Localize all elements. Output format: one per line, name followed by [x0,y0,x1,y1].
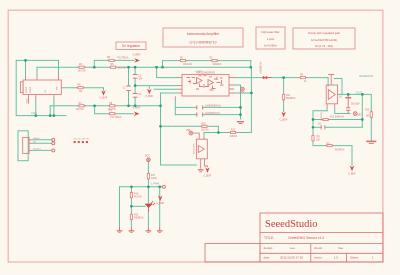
svg-text:fc=0.05Hz: fc=0.05Hz [264,44,277,48]
svg-text:2k7/1%: 2k7/1% [118,67,126,69]
svg-text:3V regulator: 3V regulator [122,44,141,48]
svg-text:check:: check: [314,246,323,250]
svg-text:1xWXM/7%: 1xWXM/7% [261,62,263,74]
svg-text:1k(W103): 1k(W103) [321,112,323,121]
svg-text:1k0/1%: 1k0/1% [201,130,209,132]
svg-text:U$3: U$3 [357,114,362,116]
svg-text:COM: COM [31,112,37,115]
svg-text:C_BUF: C_BUF [280,118,288,121]
svg-text:V_REF: V_REF [133,107,141,110]
svg-text:104(NF050V)%: 104(NF050V)% [205,106,221,108]
svg-text:5_PWM: 5_PWM [151,183,160,186]
svg-text:741.7R/1%: 741.7R/1% [110,117,121,119]
svg-text:1 pole: 1 pole [267,37,275,41]
svg-text:2k7/1%: 2k7/1% [76,109,84,111]
svg-text:G=(1.76...181): G=(1.76...181) [315,44,333,48]
svg-text:Sheet:: Sheet: [350,256,359,260]
svg-text:C_BUF: C_BUF [348,173,356,176]
svg-text:TR1: TR1 [316,137,321,139]
svg-text:GreenEMG Sensor v1.0: GreenEMG Sensor v1.0 [288,236,324,240]
svg-text:R12 56kR/1%: R12 56kR/1% [330,117,344,119]
svg-text:Leo: Leo [290,246,295,250]
svg-text:590R/1%: 590R/1% [134,218,143,220]
svg-text:741.7R/1%: 741.7R/1% [117,57,128,59]
svg-text:R14: R14 [134,194,139,196]
svg-text:high-pass filter: high-pass filter [261,30,279,34]
svg-text:date:: date: [264,256,271,260]
svg-text:4k7/1%: 4k7/1% [134,197,142,199]
svg-text:MIC: MIC [57,86,59,90]
svg-text:R16: R16 [365,110,370,112]
svg-text:U$2: U$2 [186,130,191,132]
svg-text:design:: design: [264,246,274,250]
svg-text:COM6: COM6 [30,86,32,93]
svg-text:U$9: U$9 [86,139,89,141]
svg-text:R10: R10 [202,123,207,125]
svg-text:C_BUF: C_BUF [156,202,164,205]
svg-text:Instrumental Amplifier: Instrumental Amplifier [187,32,220,36]
svg-text:104(50VDC)%: 104(50VDC)% [205,113,220,115]
svg-text:U$8: U$8 [82,139,85,141]
svg-text:2k7/1%: 2k7/1% [78,70,86,72]
svg-text:TITLE:: TITLE: [264,236,274,240]
svg-text:HEADROOM: HEADROOM [359,75,373,78]
svg-text:G=1+R12/(TR1+R11): G=1+R12/(TR1+R11) [311,38,338,42]
svg-text:U=(1+80K/R9)*10: U=(1+80K/R9)*10 [190,41,217,45]
svg-text:100k/1%: 100k/1% [183,64,192,66]
svg-text:SHIELD: SHIELD [33,138,40,140]
svg-text:vision:: vision: [314,256,323,260]
svg-text:U$7: U$7 [78,139,81,141]
svg-text:SeeedStudio: SeeedStudio [265,219,318,230]
svg-text:1.0: 1.0 [334,256,339,260]
svg-text:2011/12/16 17:20: 2011/12/16 17:20 [280,256,303,260]
svg-text:1M: 1M [79,91,82,93]
svg-text:V_AMP: V_AMP [195,70,202,73]
svg-text:R13: R13 [231,130,236,132]
svg-text:562R/1%: 562R/1% [335,150,344,152]
svg-text:100k/1%: 100k/1% [213,64,222,66]
svg-text:SIG: SIG [33,141,37,143]
svg-text:Vee: Vee [338,246,344,250]
svg-text:CON6: CON6 [26,86,28,93]
svg-text:U$6: U$6 [74,139,77,141]
svg-text:562R/1%: 562R/1% [286,98,295,100]
svg-text:1k0/1%: 1k0/1% [230,136,238,138]
svg-text:REF: REF [240,93,245,95]
svg-text:VOUT: VOUT [355,92,362,95]
svg-text:OAmp with regulated gain: OAmp with regulated gain [308,31,341,35]
svg-text:C_BUF: C_BUF [145,95,153,98]
svg-text:OUTPUT: OUTPUT [33,148,42,150]
svg-text:GND: GND [26,98,28,103]
svg-text:VCC: VCC [145,155,150,158]
svg-text:V_REF: V_REF [133,53,141,56]
svg-text:R17: R17 [151,175,156,177]
svg-text:R15: R15 [134,215,139,217]
svg-text:C_BUF: C_BUF [203,174,211,177]
svg-text:SI2301CDS: SI2301CDS [194,143,196,154]
svg-text:C_BUF: C_BUF [100,97,108,100]
svg-text:10u/16V: 10u/16V [351,104,360,106]
svg-text:120R: 120R [151,178,157,180]
